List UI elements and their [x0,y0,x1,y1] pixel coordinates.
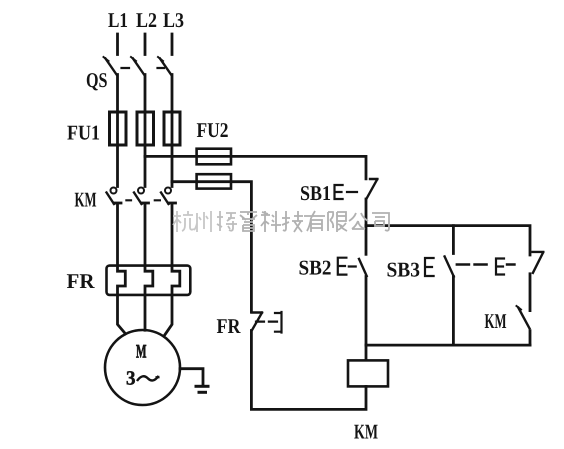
svg-text:3: 3 [126,368,136,390]
svg-text:KM: KM [75,188,97,212]
svg-text:KM: KM [485,309,507,333]
svg-text:M: M [136,342,147,363]
svg-text:FR: FR [217,314,242,338]
svg-text:FU2: FU2 [197,118,229,142]
svg-text:QS: QS [86,68,108,92]
svg-text:L1: L1 [108,8,128,32]
svg-text:SB2: SB2 [299,256,332,280]
svg-text:L3: L3 [163,8,184,32]
svg-text:SB1: SB1 [300,181,331,205]
svg-text:SB3: SB3 [387,258,421,282]
svg-text:FU1: FU1 [67,121,100,145]
svg-text:FR: FR [67,269,96,293]
svg-text:L2: L2 [136,8,157,32]
svg-text:KM: KM [354,420,378,444]
